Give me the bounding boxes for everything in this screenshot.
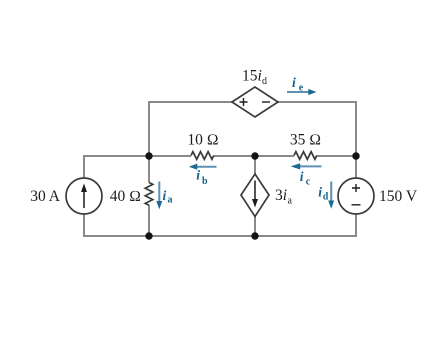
svg-text:35 Ω: 35 Ω xyxy=(290,132,321,149)
node junction dot right-mid xyxy=(352,152,359,159)
node junction dot left-mid xyxy=(145,152,152,159)
resistor 10 ohm xyxy=(191,152,214,160)
dependent source 15 i_d xyxy=(232,87,278,117)
wire middle rail center xyxy=(214,155,294,157)
wire center column xyxy=(254,156,256,236)
wire middle rail right xyxy=(317,155,356,157)
svg-text:d: d xyxy=(262,76,267,87)
svg-text:b: b xyxy=(202,176,208,187)
svg-text:i: i xyxy=(196,168,200,183)
wire bottom rail xyxy=(84,235,356,237)
voltage source 150 V xyxy=(338,178,374,214)
current arrow i_b xyxy=(189,164,217,170)
current arrow i_e xyxy=(287,89,317,95)
node junction dot center-mid xyxy=(251,152,258,159)
svg-text:40 Ω: 40 Ω xyxy=(110,188,141,205)
node junction dot left-bottom xyxy=(145,232,152,239)
current source 30 A xyxy=(66,178,102,214)
svg-text:150 V: 150 V xyxy=(379,188,418,205)
current arrow i_d xyxy=(328,182,334,209)
svg-text:a: a xyxy=(168,195,173,206)
svg-text:i: i xyxy=(318,185,322,200)
wire right column xyxy=(355,156,357,237)
svg-text:a: a xyxy=(288,196,293,207)
current arrow i_c xyxy=(291,163,322,169)
wire 40ohm branch upper xyxy=(148,156,150,183)
wire 40ohm branch lower xyxy=(148,205,150,237)
resistor 40 ohm xyxy=(145,183,153,206)
svg-text:3i: 3i xyxy=(275,187,287,204)
svg-text:i: i xyxy=(300,169,304,184)
svg-text:d: d xyxy=(323,192,329,203)
svg-text:c: c xyxy=(306,177,311,188)
svg-text:30 A: 30 A xyxy=(30,188,61,205)
node junction dot center-bottom xyxy=(251,232,258,239)
svg-text:15i: 15i xyxy=(242,68,262,85)
current arrow i_a xyxy=(156,182,162,210)
wire left branch xyxy=(83,155,85,237)
svg-text:i: i xyxy=(163,188,167,203)
resistor 35 ohm xyxy=(294,152,317,160)
wire middle rail left xyxy=(84,155,191,157)
wire top-left segment xyxy=(149,102,233,157)
svg-text:10 Ω: 10 Ω xyxy=(187,132,218,149)
svg-text:e: e xyxy=(299,83,304,94)
dependent source 3 i_a xyxy=(241,174,269,217)
wire top-right segment xyxy=(277,102,356,157)
svg-text:i: i xyxy=(292,75,296,90)
